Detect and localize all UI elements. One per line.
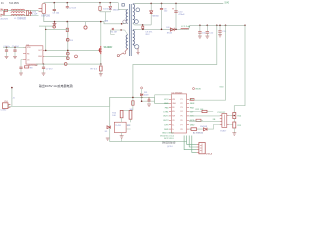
- svg-text:GND: GND: [164, 103, 169, 105]
- node dot source bus: [100, 63, 102, 65]
- wire feedback loop: [133, 25, 217, 97]
- wire aux VDD feed: [39, 26, 55, 50]
- T1 winding1 bottom curl: [135, 20, 139, 24]
- node dot drain: [100, 21, 102, 23]
- ground C4: [5, 56, 9, 58]
- svg-text:VBUS: VBUS: [195, 89, 201, 91]
- wire feedback drop: [132, 97, 134, 110]
- resistor R3: [66, 28, 68, 31]
- svg-text:SB360: SB360: [152, 15, 159, 17]
- transformer T1 secondary winding 1: [133, 4, 135, 24]
- node dots secondary rail: [142, 25, 246, 31]
- net port VBUS: [193, 88, 195, 90]
- node junction dots on DC+ rail: [54, 2, 112, 4]
- svg-text:CON2: CON2: [1, 110, 8, 112]
- wire U2 pin4 row: [189, 111, 213, 113]
- wire stub TP: [11, 88, 13, 107]
- svg-text:USB-A: USB-A: [206, 153, 213, 156]
- svg-text:D+: D+: [172, 124, 174, 126]
- svg-text:P5: P5: [181, 116, 183, 118]
- ground secondary winding: [136, 48, 139, 55]
- svg-text:GND: GND: [38, 56, 43, 58]
- U2 pin names inside: [172, 99, 182, 131]
- wire R15 down: [233, 128, 235, 133]
- shunt regulator U4 TL431: [114, 118, 130, 133]
- svg-text:OUT1: OUT1: [163, 116, 169, 118]
- node dots dividers: [132, 97, 142, 99]
- transformer T1 core: [129, 4, 131, 56]
- svg-text:QC3.0: QC3.0: [167, 146, 174, 148]
- connector P1 AC input: [1, 9, 4, 17]
- wire 5V0 rail: [134, 2, 223, 5]
- wire aux sense: [142, 89, 155, 101]
- ground C11: [198, 36, 202, 38]
- ground U4: [120, 136, 124, 138]
- wire U2 pin5 to opto: [189, 115, 220, 117]
- capacitor C2: [66, 3, 69, 9]
- svg-text:U2 SW2303: U2 SW2303: [172, 92, 184, 94]
- svg-text:C5 104: C5 104: [12, 46, 20, 48]
- node dots gate: [45, 50, 69, 52]
- svg-text:T2A 250V: T2A 250V: [9, 2, 20, 5]
- svg-text:P7: P7: [181, 124, 183, 126]
- jumper X1 cross: [112, 28, 114, 30]
- svg-text:P4: P4: [181, 111, 183, 113]
- capacitor C10: [172, 3, 177, 29]
- wire opto to divider: [229, 116, 235, 125]
- svg-text:2KV: 2KV: [145, 34, 150, 36]
- svg-text:10K: 10K: [112, 115, 116, 117]
- capacitor C5: [13, 47, 16, 56]
- svg-text:P6: P6: [181, 120, 183, 122]
- transistor Q2: [66, 52, 69, 55]
- svg-text:0.1uF: 0.1uF: [32, 14, 38, 16]
- node dot TP: [11, 87, 13, 89]
- capacitor C6 under U1: [19, 60, 23, 73]
- svg-text:AC250V: AC250V: [1, 17, 9, 20]
- wire DC+ top rail: [44, 2, 119, 4]
- wire USB data staircase: [184, 136, 197, 153]
- resistor R16 on pin1: [190, 98, 194, 100]
- ground R15: [232, 133, 236, 135]
- resistor R15: [233, 122, 236, 128]
- capacitor CX2: [26, 11, 28, 15]
- diode D10: [204, 128, 208, 131]
- svg-text:SEN: SEN: [190, 103, 195, 105]
- svg-text:104 400V: 104 400V: [103, 8, 112, 10]
- wire U2 left feed: [155, 95, 172, 104]
- svg-text:SS34: SS34: [167, 32, 173, 34]
- node dot C14: [219, 25, 221, 27]
- capacitor C14: [218, 25, 221, 34]
- resistor R9 on drop: [132, 101, 134, 105]
- resistor R11: [129, 110, 132, 119]
- wire AC neutral bottom: [2, 15, 39, 17]
- svg-text:P1: P1: [181, 99, 183, 101]
- svg-text:R12 10K: R12 10K: [196, 109, 204, 111]
- resistor R12: [202, 110, 207, 112]
- snubber capacitor C8: [160, 3, 163, 29]
- ground C13: [147, 104, 151, 106]
- node dot opto: [234, 115, 235, 116]
- svg-text:VCC: VCC: [164, 99, 169, 101]
- diode D3: [66, 38, 69, 41]
- U1 pin names: [27, 47, 43, 61]
- IC U1 PWM controller: [23, 46, 44, 64]
- svg-text:C2 103: C2 103: [69, 7, 77, 9]
- svg-text:D9: D9: [105, 131, 107, 133]
- node dot center tap: [142, 24, 144, 26]
- diode D8: [170, 28, 174, 31]
- ground bus marker: [106, 138, 110, 140]
- node dot aux jog: [120, 29, 121, 30]
- svg-text:A1 SS8050: A1 SS8050: [193, 132, 204, 135]
- capacitor C3 bulk: [53, 3, 56, 13]
- ground C6: [19, 73, 23, 75]
- wire primary ground bus: [36, 63, 101, 65]
- connector CN2 USB: [197, 143, 206, 154]
- common-mode choke L1: [11, 9, 25, 16]
- wire gnd return bus: [110, 97, 187, 141]
- resistor R13: [191, 128, 197, 131]
- svg-text:Q1 2N60: Q1 2N60: [104, 47, 114, 49]
- svg-text:EL817: EL817: [221, 131, 228, 133]
- wire between R14 R15: [233, 119, 235, 123]
- ground C12: [205, 36, 209, 38]
- resistor R10: [120, 110, 123, 117]
- IC U2 secondary controller: [169, 94, 189, 133]
- diode D6 output rectifier: [150, 3, 153, 25]
- svg-text:输出DC5V 1A(充电器电源): 输出DC5V 1A(充电器电源): [39, 83, 73, 88]
- capacitor C7: [42, 64, 45, 73]
- capacitor CY: [29, 11, 32, 16]
- diode D9: [107, 126, 110, 129]
- svg-text:KBP206: KBP206: [42, 15, 51, 17]
- transformer T1 aux winding: [126, 35, 128, 49]
- svg-text:SW: SW: [172, 116, 175, 118]
- wire drain: [100, 22, 102, 46]
- capacitor C4: [5, 47, 8, 56]
- resistor R8: [24, 66, 28, 68]
- diode D11: [141, 94, 143, 96]
- svg-text:VD50 NC1 CC2: VD50 NC1 CC2: [160, 135, 175, 137]
- part R4: [84, 22, 87, 30]
- net port VCC5: [141, 87, 143, 89]
- svg-text:P8: P8: [181, 129, 183, 131]
- resistor R17 on pin6: [189, 119, 203, 121]
- wire U4 cathode ground: [121, 133, 123, 142]
- capacitor C11: [198, 25, 201, 35]
- ground R7: [99, 74, 103, 76]
- capacitor C13: [148, 97, 151, 103]
- center tap part: [142, 26, 144, 28]
- wire VOUT sense drop: [189, 25, 225, 100]
- T1 phase dot winding1: [136, 8, 140, 12]
- U2 right net labels: [190, 99, 196, 131]
- optocoupler U3: [220, 114, 229, 128]
- node dots on 5V rail: [150, 3, 176, 5]
- svg-text:C4 10u: C4 10u: [3, 46, 11, 48]
- RCD clamp snubber: [99, 3, 112, 22]
- ground C5: [13, 56, 17, 58]
- node dots VDD: [6, 47, 16, 49]
- svg-text:CTRL: CTRL: [163, 111, 169, 113]
- wire divider top bus: [122, 109, 133, 111]
- wire aux jog: [110, 30, 128, 35]
- svg-text:CBB: CBB: [104, 20, 109, 22]
- svg-text:5V0: 5V0: [225, 1, 230, 5]
- svg-text:GND1 GND2: GND1 GND2: [162, 133, 175, 135]
- svg-text:L2 2.2uH: L2 2.2uH: [181, 26, 190, 28]
- wire secondary output rail: [134, 25, 245, 30]
- startup chain wire: [67, 22, 69, 60]
- wire output bus: [9, 97, 169, 106]
- svg-text:C7 472: C7 472: [46, 69, 54, 71]
- T1 pin-1 square: [122, 4, 125, 7]
- svg-text:OUT2: OUT2: [163, 120, 169, 122]
- diode D5: [75, 55, 78, 58]
- wire U1 VDD: [3, 46, 25, 48]
- node junctions on return: [54, 21, 123, 25]
- wire rail to primary pin1: [118, 3, 126, 10]
- node dot aux sense: [141, 100, 143, 102]
- ground C7: [42, 73, 46, 75]
- transformer T1 primary winding: [126, 10, 128, 24]
- resistor R7 sense: [100, 66, 103, 73]
- svg-text:NC2 VD51: NC2 VD51: [164, 138, 174, 140]
- ground primary: [53, 22, 57, 26]
- MOSFET Q1: [98, 46, 101, 54]
- svg-text:C3 104: C3 104: [53, 13, 61, 15]
- wire DC return: [44, 14, 123, 24]
- svg-text:R2 2M: R2 2M: [111, 32, 117, 34]
- T1 primary bottom curl: [123, 20, 127, 24]
- svg-text:470uF: 470uF: [178, 14, 185, 16]
- svg-text:TL431: TL431: [115, 125, 122, 127]
- U2 left net labels: [163, 99, 169, 131]
- fuse F1: [4, 9, 7, 11]
- inductor L2: [181, 27, 189, 30]
- wire aux chain: [46, 28, 68, 30]
- bridge rectifier DB1: [39, 4, 46, 14]
- fuse F1 title text: [1, 2, 20, 5]
- wire opto drive: [189, 122, 220, 129]
- svg-text:1N4148: 1N4148: [200, 126, 208, 128]
- resistor R14: [233, 113, 236, 119]
- wire right rail drop: [234, 25, 245, 112]
- svg-text:R7 0.5: R7 0.5: [91, 69, 98, 71]
- svg-text:PC817C: PC817C: [218, 112, 226, 114]
- connector CN1 output: [3, 103, 11, 109]
- diode D4 aux: [53, 26, 56, 29]
- ground C14: [218, 35, 222, 37]
- wire gate drive: [44, 50, 98, 56]
- wire winding1 bottom pin: [133, 23, 151, 25]
- wire AC line top: [2, 10, 39, 12]
- T1 phase dot winding2: [135, 45, 139, 49]
- transformer T1 secondary winding 2: [133, 29, 135, 45]
- zener D12: [66, 57, 69, 60]
- svg-text:P2: P2: [181, 103, 183, 105]
- diode D7 on bus: [64, 63, 67, 66]
- capacitor C12: [206, 25, 209, 35]
- svg-text:P3: P3: [181, 107, 183, 109]
- svg-text:CN1: CN1: [4, 101, 8, 103]
- wire source: [100, 54, 102, 65]
